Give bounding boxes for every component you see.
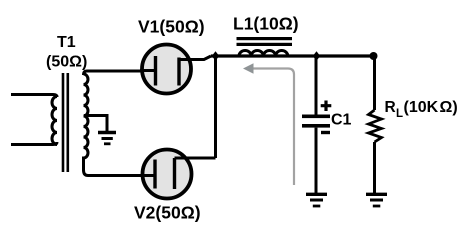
svg-text:(10K Ω): (10K Ω) — [404, 99, 458, 116]
svg-text:R: R — [385, 99, 396, 116]
svg-text:T1: T1 — [57, 34, 76, 51]
svg-text:L: L — [396, 108, 403, 120]
svg-text:V1(50Ω): V1(50Ω) — [138, 17, 205, 37]
svg-text:V2(50Ω): V2(50Ω) — [134, 203, 201, 223]
svg-text:(50Ω): (50Ω) — [46, 54, 87, 71]
svg-text:C1: C1 — [331, 112, 352, 129]
svg-text:L1(10Ω): L1(10Ω) — [233, 14, 299, 34]
